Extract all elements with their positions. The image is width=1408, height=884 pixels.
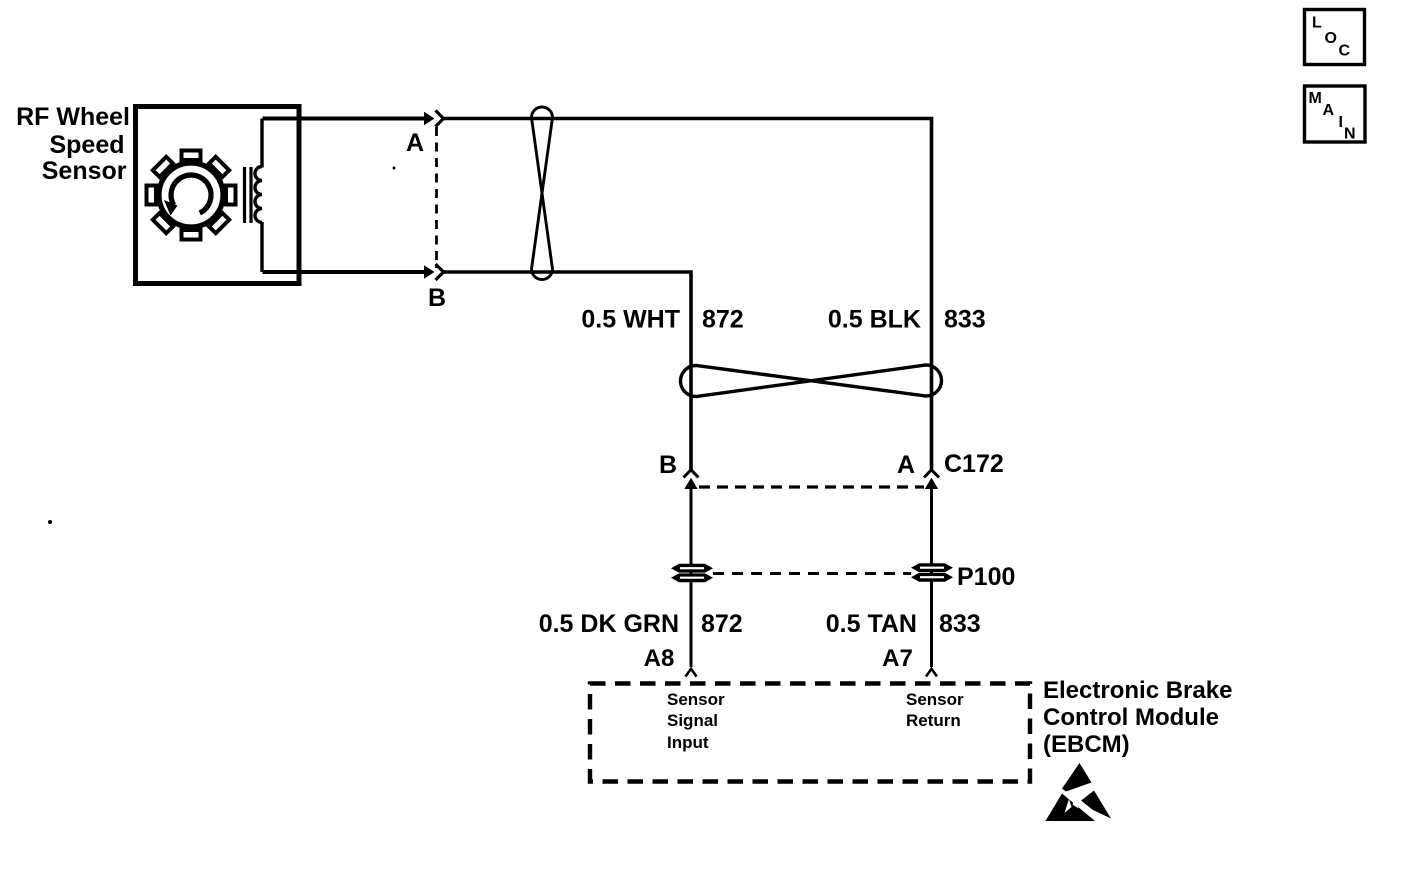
connector C172 chevron, left xyxy=(684,470,699,478)
LOC page-reference box xyxy=(1305,10,1365,65)
svg-text:A: A xyxy=(897,451,915,479)
svg-text:A: A xyxy=(406,129,424,157)
svg-text:A7: A7 xyxy=(882,645,913,672)
svg-text:Sensor: Sensor xyxy=(667,690,725,709)
svg-text:RF Wheel: RF Wheel xyxy=(16,103,130,131)
svg-text:0.5 TAN: 0.5 TAN xyxy=(826,610,917,638)
speck bottom-left xyxy=(48,520,52,524)
wire: C172 to EBCM, left (872) xyxy=(690,488,693,667)
svg-text:I: I xyxy=(1339,114,1343,131)
svg-text:Input: Input xyxy=(667,733,709,752)
connector terminal arrow, pin A xyxy=(424,112,435,125)
EBCM pin chevron A8 xyxy=(686,669,697,677)
wire: bottom run to corner xyxy=(443,272,691,470)
connector terminal chevron, pin B xyxy=(436,264,444,280)
tone wheel toothed ring xyxy=(147,151,236,240)
connector C172 chevron, right xyxy=(924,470,939,478)
svg-text:Electronic Brake: Electronic Brake xyxy=(1043,677,1232,704)
grommet P100 dashed tie line xyxy=(713,572,911,575)
wire: sensor pin A (top) xyxy=(263,117,427,121)
svg-text:N: N xyxy=(1344,126,1356,143)
connector terminal chevron, pin A xyxy=(436,111,444,127)
RF Wheel Speed Sensor label xyxy=(16,103,130,185)
EBCM module name label xyxy=(1043,677,1232,758)
svg-text:0.5 DK GRN: 0.5 DK GRN xyxy=(539,610,679,638)
svg-text:0.5 WHT: 0.5 WHT xyxy=(581,306,680,334)
connector C172 arrow, left xyxy=(684,478,697,489)
svg-text:Control Module: Control Module xyxy=(1043,704,1219,731)
svg-text:833: 833 xyxy=(939,610,981,638)
svg-text:833: 833 xyxy=(944,306,986,334)
svg-text:Sensor: Sensor xyxy=(42,157,127,185)
grommet P100, right xyxy=(911,563,953,582)
svg-text:C172: C172 xyxy=(944,450,1004,478)
wire: C172 to EBCM, right (833) xyxy=(930,488,933,667)
svg-text:O: O xyxy=(1325,30,1337,47)
sensor internal wire lower xyxy=(260,222,263,272)
svg-text:Return: Return xyxy=(906,711,961,730)
svg-text:M: M xyxy=(1309,90,1322,107)
RF wheel speed sensor box xyxy=(136,107,300,284)
connector C172 arrow, right xyxy=(925,478,938,489)
wire: sensor pin B (bottom) xyxy=(263,270,427,274)
pickup coil core xyxy=(245,167,252,223)
svg-text:B: B xyxy=(659,451,677,479)
sensor internal wire upper xyxy=(260,119,263,168)
svg-text:L: L xyxy=(1312,15,1322,32)
wire: top run to right corner xyxy=(443,119,932,470)
svg-text:B: B xyxy=(428,284,446,312)
EBCM pin function label: Sensor Return xyxy=(906,690,964,730)
connector C172 dashed tie line xyxy=(699,485,924,488)
EBCM pin function label: Sensor Signal Input xyxy=(667,690,725,752)
svg-text:A8: A8 xyxy=(644,645,675,672)
svg-text:872: 872 xyxy=(701,610,743,638)
svg-text:Sensor: Sensor xyxy=(906,690,964,709)
svg-text:872: 872 xyxy=(702,306,744,334)
pickup coil winding xyxy=(255,167,262,223)
connector dashed tie line A-B xyxy=(435,127,438,268)
connector terminal arrow, pin B xyxy=(424,265,435,278)
twisted pair symbol (vertical) xyxy=(532,107,553,280)
EBCM dashed box xyxy=(590,684,1030,782)
svg-text:0.5 BLK: 0.5 BLK xyxy=(828,306,921,334)
svg-text:P100: P100 xyxy=(957,563,1015,591)
speck xyxy=(393,167,396,170)
svg-text:C: C xyxy=(1339,43,1351,60)
MAIN page-reference box xyxy=(1305,86,1366,143)
ESD sensitivity symbol xyxy=(1046,763,1112,823)
svg-text:Signal: Signal xyxy=(667,711,718,730)
svg-text:Speed: Speed xyxy=(49,131,124,159)
svg-text:A: A xyxy=(1323,102,1335,119)
EBCM pin chevron A7 xyxy=(926,669,937,677)
svg-text:(EBCM): (EBCM) xyxy=(1043,731,1130,758)
grommet P100, left xyxy=(671,564,713,583)
twisted pair symbol (horizontal) xyxy=(681,365,942,397)
rotation arrow xyxy=(164,175,211,215)
